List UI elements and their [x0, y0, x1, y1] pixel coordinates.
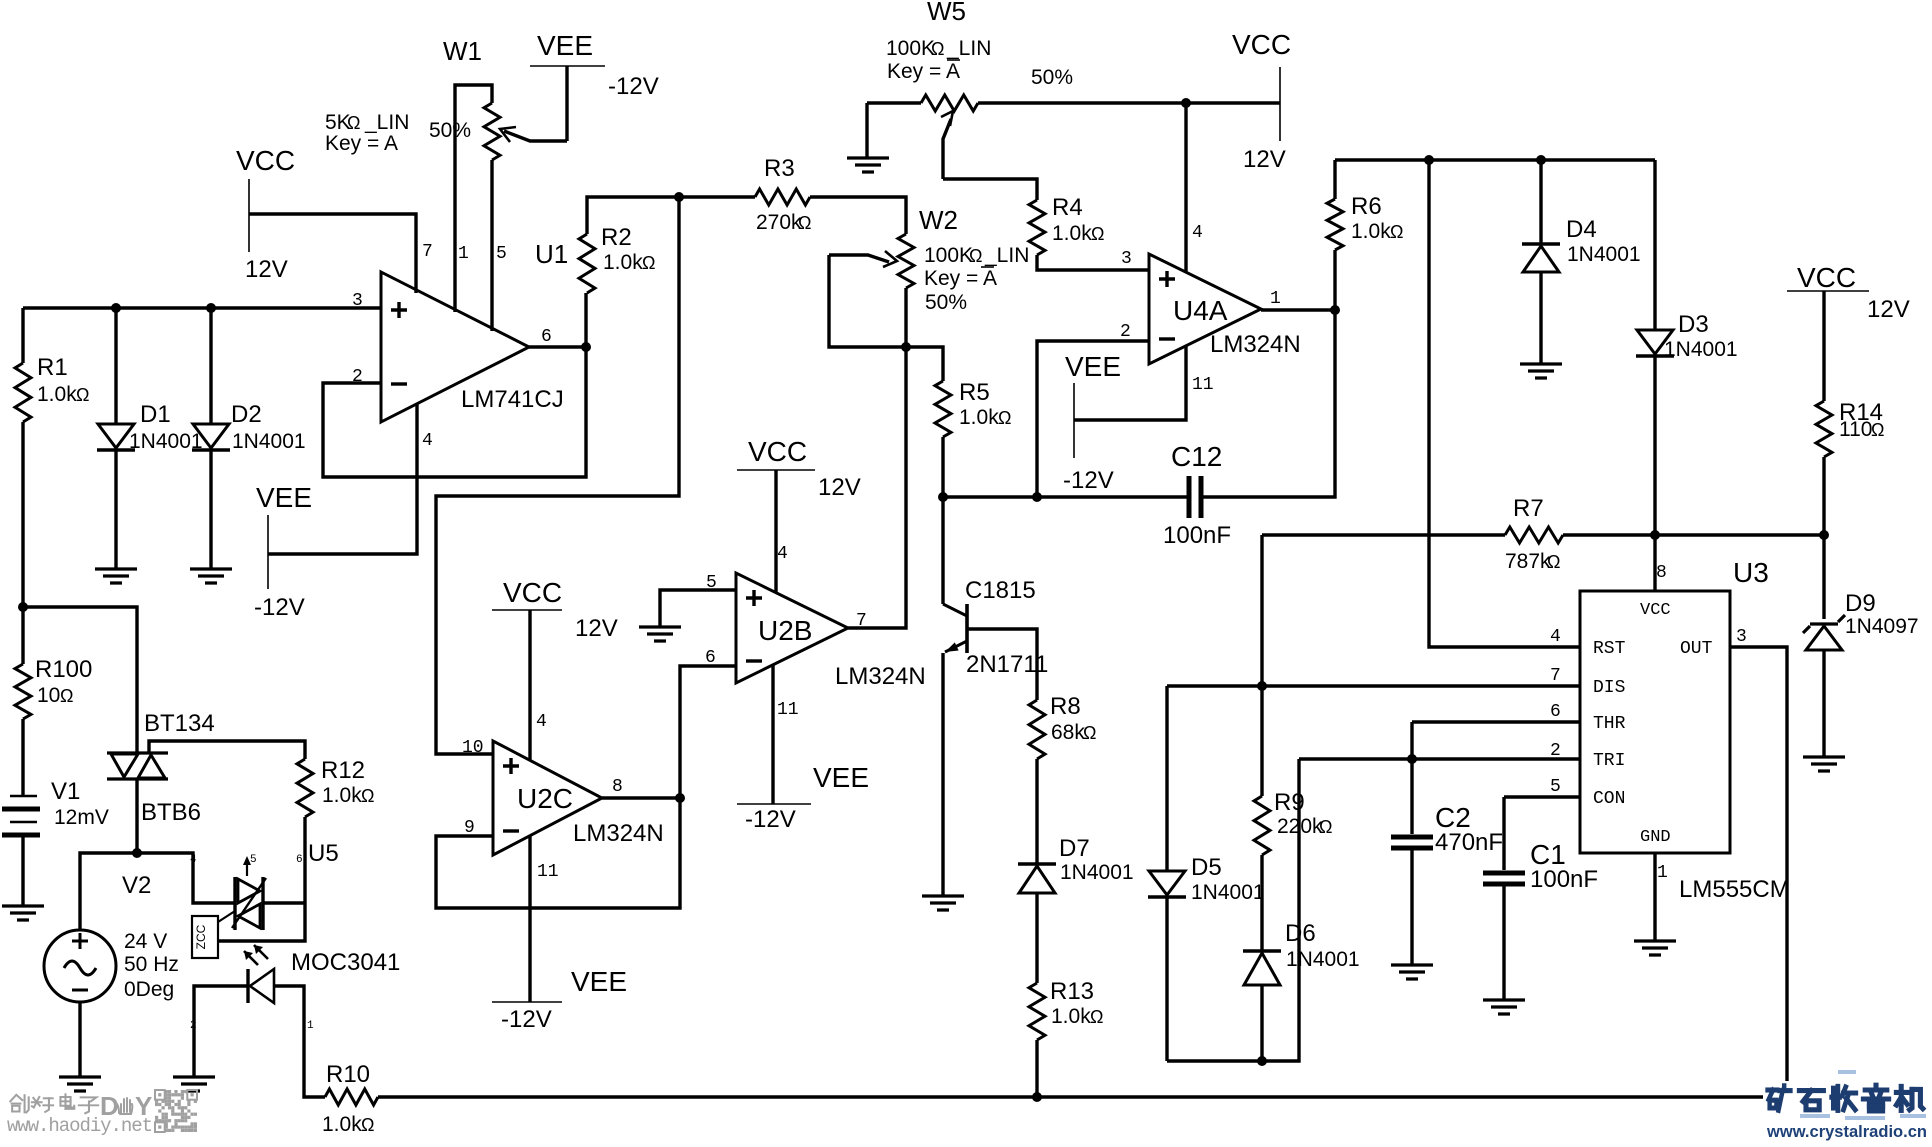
diode D4 [1522, 160, 1641, 364]
wire triac MT2 to R12 [149, 741, 305, 759]
resistor R2 [579, 197, 679, 347]
svg-text:Ω: Ω [1871, 420, 1884, 440]
svg-text:68k: 68k [1051, 721, 1085, 744]
svg-text:5: 5 [1550, 777, 1561, 797]
svg-text:BT134: BT134 [144, 710, 215, 737]
wire U2B output to W2 node [848, 347, 906, 628]
svg-text:Ω: Ω [1319, 817, 1332, 837]
svg-text:11: 11 [1192, 375, 1214, 395]
top rail wire VCC net [1335, 158, 1655, 161]
svg-text:1.0k: 1.0k [322, 1113, 362, 1136]
capacitor C1 [1483, 797, 1598, 1000]
junction dot R13 bottom [1032, 1092, 1042, 1102]
node IN+ rail wire [23, 306, 381, 309]
resistor R8 [1029, 693, 1096, 864]
svg-text:4: 4 [777, 544, 788, 564]
svg-text:LM324N: LM324N [573, 820, 664, 847]
diode D3 [1636, 160, 1738, 535]
svg-text:U1: U1 [535, 239, 568, 269]
junction dot U1 output [581, 342, 591, 352]
resistor R5 [906, 347, 1011, 497]
svg-text:5: 5 [496, 244, 507, 264]
svg-text:U3: U3 [1733, 557, 1769, 588]
svg-text:12V: 12V [575, 615, 618, 642]
svg-text:D9: D9 [1845, 590, 1876, 617]
power VEE symbol U1 [254, 482, 312, 621]
svg-text:Ω: Ω [361, 1115, 374, 1135]
resistor R3 [679, 155, 906, 234]
power VEE symbol U2B [737, 665, 869, 833]
svg-text:D3: D3 [1678, 311, 1709, 338]
svg-text:1.0k: 1.0k [322, 784, 362, 807]
svg-text:Key = A: Key = A [325, 132, 398, 155]
svg-text:V2: V2 [122, 872, 151, 899]
transistor Q1 C1815/2N1711 [943, 497, 1048, 896]
svg-text:-12V: -12V [254, 594, 305, 621]
svg-text:110: 110 [1839, 418, 1872, 441]
op-amp U1 LM741CJ [352, 239, 568, 451]
svg-text:U2B: U2B [758, 615, 812, 646]
svg-text:1.0k: 1.0k [603, 251, 643, 274]
wire U4A pin4 from rail [1184, 103, 1187, 272]
junction dot R5 bottom [938, 492, 948, 502]
svg-text:50%: 50% [429, 119, 471, 142]
svg-text:www.haodiy.net: www.haodiy.net [7, 1115, 153, 1137]
ground below D4 [1520, 364, 1562, 378]
junction dot W5 rail to U4A pin4 [1181, 98, 1191, 108]
wire U3 CON pin5 [1504, 795, 1580, 798]
potentiometer W2 [829, 205, 1029, 347]
svg-text:Ω: Ω [1090, 1007, 1103, 1027]
svg-text:VCC: VCC [503, 577, 562, 608]
svg-text:12V: 12V [818, 474, 861, 501]
svg-text:D5: D5 [1191, 854, 1222, 881]
ground below opto pin2 [173, 1077, 215, 1091]
svg-text:12V: 12V [245, 256, 288, 283]
svg-text:D4: D4 [1566, 216, 1597, 243]
svg-text:_LIN: _LIN [946, 37, 991, 60]
svg-text:CON: CON [1593, 789, 1625, 809]
svg-text:11: 11 [537, 862, 559, 882]
op-amp U4A LM324N [1120, 254, 1301, 395]
svg-text:U5: U5 [308, 840, 339, 867]
svg-text:R8: R8 [1050, 693, 1081, 720]
svg-text:0Deg: 0Deg [124, 978, 174, 1001]
svg-text:_LIN: _LIN [364, 111, 409, 134]
triac BT134/BTB6 [107, 710, 215, 826]
power VEE symbol U2C [492, 836, 627, 1033]
resistor R13 [1029, 978, 1103, 1097]
wire R7 left to DIS node [1260, 535, 1263, 686]
svg-text:1: 1 [1657, 863, 1668, 883]
svg-text:6: 6 [541, 327, 552, 347]
ground below C2 [1391, 965, 1433, 979]
svg-text:2: 2 [190, 1020, 197, 1032]
svg-text:1: 1 [1270, 289, 1281, 309]
wire U3 TRI pin2 [1299, 757, 1580, 760]
svg-text:50%: 50% [925, 291, 967, 314]
ground below U3 [1634, 941, 1676, 955]
diode D5 [1148, 686, 1265, 1061]
resistor R6 [1327, 160, 1403, 310]
svg-text:470nF: 470nF [1435, 829, 1503, 856]
svg-text:10: 10 [462, 738, 484, 758]
svg-text:7: 7 [1550, 666, 1561, 686]
svg-text:Ω: Ω [642, 253, 655, 273]
svg-text:1N4001: 1N4001 [1664, 338, 1738, 361]
svg-text:Ω: Ω [76, 385, 89, 405]
wire TRI bottom net [1167, 759, 1299, 1061]
power VCC symbol right [1787, 262, 1910, 323]
svg-text:VEE: VEE [537, 30, 593, 61]
junction dot D3/R7 node [1650, 530, 1660, 540]
svg-text:Ω: Ω [1390, 222, 1403, 242]
svg-text:VEE: VEE [1065, 351, 1121, 382]
svg-text:Ω: Ω [1547, 552, 1560, 572]
svg-text:VEE: VEE [813, 762, 869, 793]
junction dot R3 left node [674, 192, 684, 202]
resistor R100 [15, 607, 92, 796]
svg-text:787k: 787k [1505, 550, 1551, 573]
svg-text:R2: R2 [601, 224, 632, 251]
op-amp U2C LM324N [464, 712, 664, 882]
ground below D9 [1803, 757, 1845, 771]
svg-text:1N4097: 1N4097 [1845, 615, 1919, 638]
svg-text:Ω: Ω [1083, 723, 1096, 743]
power VCC symbol U2C [492, 577, 618, 760]
svg-text:D2: D2 [231, 401, 262, 428]
svg-text:3: 3 [352, 291, 363, 311]
svg-text:1N4001: 1N4001 [1060, 861, 1134, 884]
svg-text:V1: V1 [51, 778, 80, 805]
svg-text:BTB6: BTB6 [141, 799, 201, 826]
svg-text:R10: R10 [326, 1061, 370, 1088]
junction dot D1 node [111, 303, 121, 313]
junction dot U4A pin2 node [1032, 492, 1042, 502]
svg-text:Key = A: Key = A [887, 60, 960, 83]
svg-text:ZCC: ZCC [194, 924, 208, 949]
ground below C1 [1483, 1000, 1525, 1014]
ground U2B pin5 [639, 627, 681, 641]
wire D3 node to U3 pin8 [1653, 535, 1656, 591]
resistor R1 [15, 308, 89, 607]
svg-text:Key = A: Key = A [924, 267, 997, 290]
wire node to U2C +input [436, 197, 679, 754]
svg-text:LM741CJ: LM741CJ [461, 386, 564, 413]
ground below V2 [59, 1077, 101, 1091]
svg-text:24 V: 24 V [124, 930, 167, 953]
svg-text:R100: R100 [35, 656, 92, 683]
svg-text:6: 6 [705, 648, 716, 668]
svg-text:1N4001: 1N4001 [129, 430, 203, 453]
svg-text:LM324N: LM324N [835, 663, 926, 690]
junction dot R14/D9 node [1819, 530, 1829, 540]
power VCC symbol U2B [737, 436, 861, 592]
wire U2C pin9 feedback [436, 798, 680, 908]
ground below D1 [95, 569, 137, 583]
wire U3 GND pin1 [1653, 853, 1656, 941]
wire DIS net [1167, 684, 1580, 687]
wire U1 output [529, 345, 586, 348]
svg-text:LM324N: LM324N [1210, 331, 1301, 358]
svg-text:12V: 12V [1243, 146, 1286, 173]
wire U3 RST pin4 [1429, 160, 1580, 647]
diode D7 [1018, 835, 1134, 983]
svg-text:MOC3041: MOC3041 [291, 949, 400, 976]
wire triac MT1 to node [135, 779, 138, 853]
watermark crystalradio text [1766, 1070, 1927, 1141]
diode D6 [1243, 920, 1360, 1061]
svg-text:1N4001: 1N4001 [1567, 243, 1641, 266]
svg-text:4: 4 [190, 854, 197, 866]
svg-text:4: 4 [1192, 223, 1203, 243]
watermark haodiy qr code [155, 1090, 197, 1132]
wire U2C out to U2B pin6 [680, 666, 736, 798]
ground below D2 [190, 569, 232, 583]
wire U2C output [602, 796, 680, 799]
svg-text:W5: W5 [927, 0, 966, 26]
svg-text:1N4001: 1N4001 [232, 430, 306, 453]
svg-text:4: 4 [536, 712, 547, 732]
junction dot R1 bottom node [18, 602, 28, 612]
wire U3 THR pin6 [1412, 720, 1580, 723]
svg-text:R5: R5 [959, 379, 990, 406]
svg-text:D7: D7 [1059, 835, 1090, 862]
svg-text:U2C: U2C [517, 783, 573, 814]
ic U3 LM555CM [1580, 557, 1790, 903]
wire VCC to U1 pin7 [249, 214, 416, 293]
power VCC symbol U1 [236, 145, 295, 283]
svg-text:C12: C12 [1171, 441, 1222, 472]
svg-text:-12V: -12V [608, 73, 659, 100]
resistor R7 [1262, 495, 1823, 573]
svg-text:-12V: -12V [501, 1006, 552, 1033]
wire U1 pin4 to VEE [268, 404, 417, 554]
svg-text:-12V: -12V [1063, 467, 1114, 494]
ground below transistor emitter [922, 896, 964, 910]
svg-text:50%: 50% [1031, 66, 1073, 89]
svg-text:Ω: Ω [931, 39, 944, 59]
svg-text:7: 7 [422, 242, 433, 262]
resistor R14 [1816, 291, 1884, 535]
svg-text:R13: R13 [1050, 978, 1094, 1005]
svg-text:TRI: TRI [1593, 751, 1625, 771]
resistor R12 [297, 757, 374, 817]
svg-text:R3: R3 [764, 155, 795, 182]
svg-text:Ω: Ω [998, 408, 1011, 428]
svg-text:-12V: -12V [745, 806, 796, 833]
potentiometer W1 [325, 36, 567, 331]
svg-text:DIS: DIS [1593, 678, 1625, 698]
svg-text:Ω: Ω [969, 246, 982, 266]
svg-text:1.0k: 1.0k [37, 383, 77, 406]
wire W5 wiper to R4 [943, 179, 1037, 200]
svg-text:3: 3 [1736, 627, 1747, 647]
wire R5 node to C12 node [943, 495, 1037, 498]
svg-text:1N4001: 1N4001 [1286, 948, 1360, 971]
zener diode D9 [1803, 535, 1919, 757]
svg-text:C1815: C1815 [965, 577, 1036, 604]
svg-text:Ω: Ω [798, 213, 811, 233]
junction dot D2 node [206, 303, 216, 313]
svg-text:VCC: VCC [748, 436, 807, 467]
svg-text:VCC: VCC [236, 145, 295, 176]
svg-text:3: 3 [1121, 249, 1132, 269]
svg-text:1.0k: 1.0k [1351, 220, 1391, 243]
svg-text:100K: 100K [924, 244, 973, 267]
svg-text:4: 4 [422, 431, 433, 451]
ground below V1 [2, 906, 44, 920]
svg-text:R7: R7 [1513, 495, 1544, 522]
svg-text:12mV: 12mV [54, 806, 109, 829]
svg-text:100nF: 100nF [1530, 866, 1598, 893]
svg-text:R4: R4 [1052, 194, 1083, 221]
wire U4A pin2 feedback [1037, 341, 1149, 497]
svg-text:RST: RST [1593, 639, 1626, 659]
resistor R10 [322, 1061, 378, 1136]
junction dot rail RST [1424, 155, 1434, 165]
svg-text:100K: 100K [886, 37, 935, 60]
svg-text:Ω: Ω [361, 786, 374, 806]
svg-text:1N4001: 1N4001 [1191, 881, 1265, 904]
svg-text:6: 6 [296, 854, 303, 866]
svg-text:OUT: OUT [1680, 639, 1713, 659]
junction dot triac/V2/opto node [132, 848, 142, 858]
wire U1 pin2 feedback loop [323, 347, 586, 477]
svg-text:R1: R1 [37, 354, 68, 381]
svg-text:11: 11 [777, 700, 799, 720]
svg-text:6: 6 [1550, 702, 1561, 722]
bottom rail wire [378, 1095, 1763, 1098]
junction dot U2C output [675, 793, 685, 803]
wire U2B pin5 to ground [660, 590, 736, 627]
svg-text:www.crystalradio.cn: www.crystalradio.cn [1766, 1122, 1927, 1141]
svg-text:R6: R6 [1351, 193, 1382, 220]
svg-text:100nF: 100nF [1163, 522, 1231, 549]
svg-text:GND: GND [1640, 828, 1671, 847]
watermark haodiy text [7, 1091, 153, 1137]
capacitor C12 [1037, 310, 1335, 549]
resistor R4 [1029, 194, 1149, 270]
svg-text:1: 1 [458, 244, 469, 264]
svg-text:_LIN: _LIN [984, 244, 1029, 267]
wire R1 to triac [23, 607, 137, 753]
diode D1 [97, 308, 203, 569]
capacitor C2 [1391, 759, 1503, 965]
svg-text:Ω: Ω [347, 113, 360, 133]
ac source V2 [44, 853, 179, 1077]
svg-text:R12: R12 [321, 757, 365, 784]
potentiometer W5 [867, 0, 1280, 179]
power VEE symbol W1 [530, 30, 659, 141]
junction dot DIS node R9 [1257, 681, 1267, 691]
op-amp U2B LM324N [706, 544, 926, 720]
svg-text:1: 1 [307, 1020, 314, 1032]
svg-text:12V: 12V [1867, 296, 1910, 323]
svg-text:8: 8 [612, 777, 623, 797]
diode D2 [192, 308, 306, 569]
svg-text:VCC: VCC [1797, 262, 1856, 293]
svg-text:W1: W1 [443, 36, 482, 66]
wire U4A output [1261, 308, 1335, 311]
optocoupler U5 MOC3041 [137, 817, 400, 1097]
svg-text:VEE: VEE [571, 966, 627, 997]
svg-text:VCC: VCC [1232, 29, 1291, 60]
power VCC symbol W5 rail [1232, 29, 1291, 173]
svg-text:1.0k: 1.0k [1051, 1005, 1091, 1028]
junction dot U4A output [1330, 305, 1340, 315]
wire U4A pin11 to VEE [1074, 346, 1186, 420]
junction dot D6 bottom [1257, 1056, 1267, 1066]
svg-text:5: 5 [250, 854, 257, 866]
junction dot W2 bottom node [901, 342, 911, 352]
wire U3 OUT pin3 [1730, 647, 1787, 1081]
ground below W5 [847, 158, 889, 172]
junction dot THR/TRI C2 node [1407, 754, 1417, 764]
svg-text:Ω: Ω [60, 686, 73, 706]
svg-text:1.0k: 1.0k [959, 406, 999, 429]
svg-text:270k: 270k [756, 211, 802, 234]
battery V1 [2, 778, 109, 906]
junction dot rail D4 [1536, 155, 1546, 165]
svg-text:THR: THR [1593, 714, 1626, 734]
svg-text:2: 2 [1120, 322, 1131, 342]
svg-text:VCC: VCC [1640, 601, 1671, 620]
svg-text:2: 2 [1550, 741, 1561, 761]
svg-text:Ω: Ω [1091, 224, 1104, 244]
svg-text:8: 8 [1656, 563, 1667, 583]
svg-text:D1: D1 [140, 401, 171, 428]
power VEE symbol U4A [1063, 351, 1121, 494]
svg-text:LM555CM: LM555CM [1679, 876, 1790, 903]
svg-text:W2: W2 [919, 205, 958, 235]
svg-text:4: 4 [1550, 627, 1561, 647]
svg-text:50 Hz: 50 Hz [124, 953, 179, 976]
svg-text:1.0k: 1.0k [1052, 222, 1092, 245]
svg-text:U4A: U4A [1173, 295, 1228, 326]
resistor R9 [1254, 686, 1332, 951]
svg-text:10: 10 [37, 684, 60, 707]
svg-text:VEE: VEE [256, 482, 312, 513]
